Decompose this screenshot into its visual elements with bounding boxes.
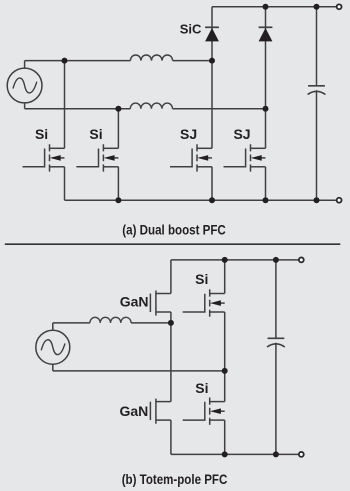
svg-text:SJ: SJ [233,126,250,142]
svg-text:GaN: GaN [120,403,149,419]
svg-text:Si: Si [195,380,208,396]
svg-text:Si: Si [195,271,208,287]
svg-text:GaN: GaN [120,293,149,309]
svg-text:SJ: SJ [180,126,197,142]
svg-text:SiC: SiC [180,22,202,37]
svg-text:(a) Dual boost PFC: (a) Dual boost PFC [122,221,226,237]
svg-text:Si: Si [35,126,48,142]
svg-text:(b) Totem-pole PFC: (b) Totem-pole PFC [122,471,228,487]
svg-text:Si: Si [89,126,102,142]
